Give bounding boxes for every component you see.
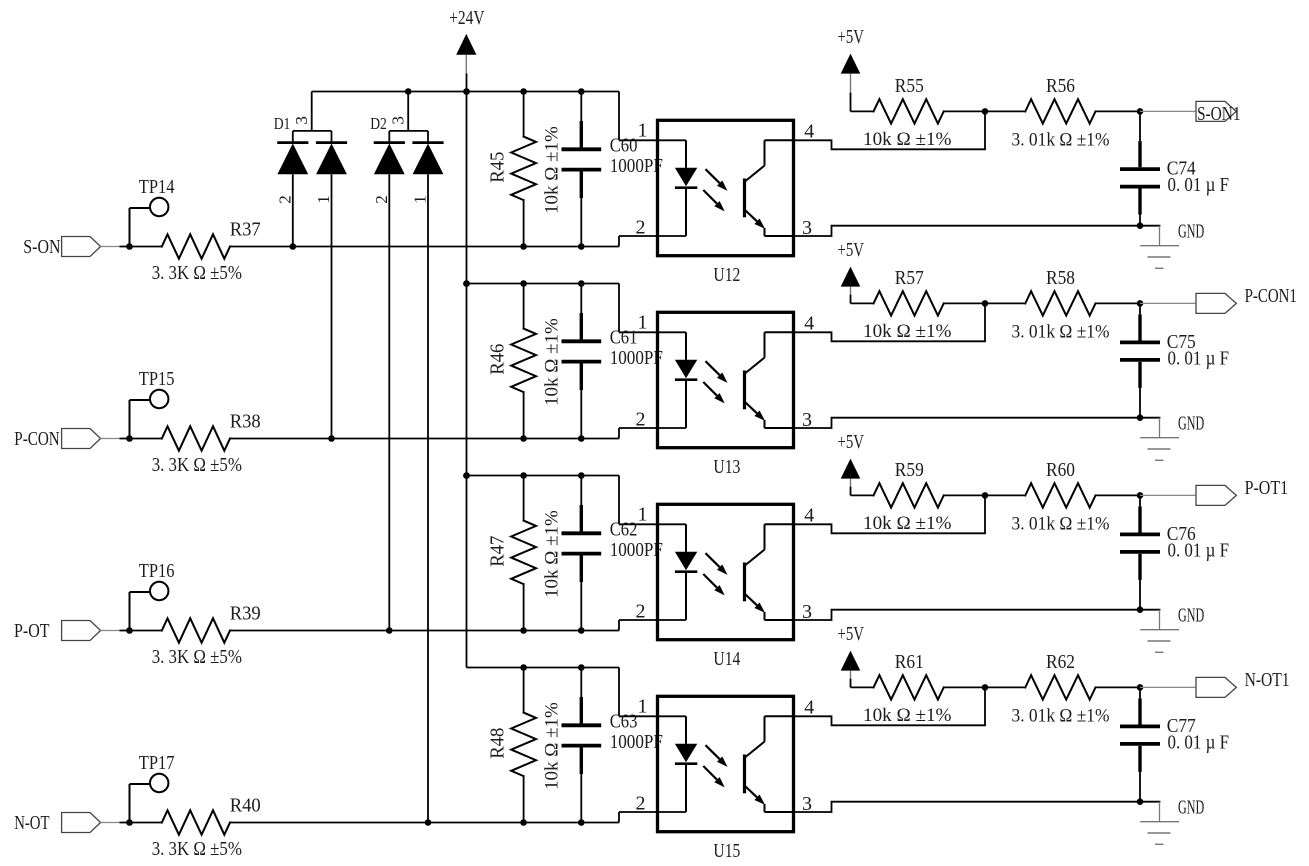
svg-text:3. 3K Ω ±5%: 3. 3K Ω ±5% bbox=[152, 646, 242, 668]
svg-text:1: 1 bbox=[638, 120, 648, 142]
node S-ON input port bbox=[23, 236, 119, 258]
svg-text:R55: R55 bbox=[895, 75, 924, 97]
optocoupler U12 bbox=[636, 120, 815, 287]
svg-text:3. 01k Ω ±1%: 3. 01k Ω ±1% bbox=[1012, 129, 1110, 150]
svg-text:R59: R59 bbox=[895, 459, 924, 481]
junction row/R47 bbox=[520, 627, 527, 634]
resistor R40 3.3K bbox=[120, 794, 261, 860]
svg-text:2: 2 bbox=[636, 601, 646, 623]
svg-text:1: 1 bbox=[638, 504, 648, 526]
svg-text:GND: GND bbox=[1178, 605, 1204, 627]
ground symbol channel 3 bbox=[1140, 605, 1204, 653]
junction C77/GND wire bbox=[1137, 798, 1144, 805]
U15 LED bbox=[685, 716, 687, 744]
optocoupler U13 bbox=[636, 312, 815, 479]
svg-text:2: 2 bbox=[372, 195, 391, 204]
svg-text:2: 2 bbox=[636, 217, 646, 239]
svg-text:P-OT: P-OT bbox=[14, 620, 50, 642]
junction +24V/rail1 bbox=[463, 88, 470, 95]
svg-text:N-OT: N-OT bbox=[14, 812, 49, 834]
svg-text:1000PF: 1000PF bbox=[610, 347, 663, 369]
svg-text:U12: U12 bbox=[713, 264, 740, 286]
svg-text:N-OT1: N-OT1 bbox=[1245, 669, 1290, 691]
test point TP15 bbox=[126, 368, 174, 442]
svg-text:0. 01 µ F: 0. 01 µ F bbox=[1168, 347, 1230, 369]
U12 phototransistor bbox=[743, 179, 746, 218]
svg-text:+5V: +5V bbox=[838, 26, 865, 48]
wire N-OT row net bbox=[230, 812, 686, 826]
junction rail/R46 bbox=[520, 280, 527, 287]
junction rail/C63 bbox=[578, 664, 585, 671]
svg-text:4: 4 bbox=[804, 697, 814, 719]
test point TP17 bbox=[126, 752, 174, 826]
junction rail/+24V line bbox=[463, 280, 470, 287]
junction R57/R58/pin4 bbox=[982, 300, 989, 307]
svg-text:R38: R38 bbox=[230, 410, 261, 432]
resistor R46 10k vertical bbox=[487, 284, 563, 439]
node N-OT input port bbox=[14, 812, 119, 834]
svg-text:4: 4 bbox=[804, 313, 814, 335]
wire D1 pin 2 to row 1 bbox=[290, 174, 297, 250]
junction output node bbox=[1137, 492, 1144, 499]
svg-text:0. 01 µ F: 0. 01 µ F bbox=[1168, 731, 1230, 753]
svg-text:R60: R60 bbox=[1046, 459, 1075, 481]
resistor R47 10k vertical bbox=[487, 476, 563, 631]
junction row/R45 bbox=[520, 243, 527, 250]
svg-text:R47: R47 bbox=[487, 536, 509, 567]
svg-text:1: 1 bbox=[410, 195, 429, 204]
svg-text:TP15: TP15 bbox=[139, 368, 175, 390]
U12 LED bbox=[685, 140, 687, 168]
wire +24V vertical net bbox=[466, 73, 468, 667]
svg-text:3. 01k Ω ±1%: 3. 01k Ω ±1% bbox=[1012, 513, 1110, 534]
junction row/C60 bbox=[578, 243, 585, 250]
svg-text:S-ON: S-ON bbox=[23, 236, 60, 258]
capacitor C61 1000PF bbox=[562, 284, 663, 439]
svg-text:4: 4 bbox=[804, 505, 814, 527]
wire P-OT row net bbox=[230, 620, 686, 634]
junction rail/+24V line bbox=[463, 88, 470, 95]
wire U14 pin 4 net bbox=[794, 495, 986, 533]
resistor R39 3.3K bbox=[120, 602, 261, 668]
svg-text:1: 1 bbox=[314, 195, 333, 204]
svg-text:2: 2 bbox=[636, 793, 646, 815]
wire U13 pin 3 / GND net bbox=[794, 418, 1160, 428]
junction C75/GND wire bbox=[1137, 414, 1144, 421]
junction rail/D2 pin3 bbox=[405, 88, 412, 95]
capacitor C75 0.01uF bbox=[1120, 303, 1229, 421]
junction output node bbox=[1137, 108, 1144, 115]
U14 phototransistor bbox=[743, 563, 746, 602]
ground symbol channel 2 bbox=[1140, 413, 1204, 461]
svg-text:3. 3K Ω ±5%: 3. 3K Ω ±5% bbox=[152, 262, 242, 284]
svg-text:GND: GND bbox=[1178, 413, 1204, 435]
resistor R56 3.01k bbox=[985, 75, 1143, 150]
resistor R61 10k bbox=[851, 651, 989, 726]
optocoupler U15 bbox=[636, 696, 815, 863]
svg-text:+5V: +5V bbox=[838, 623, 865, 645]
svg-text:R40: R40 bbox=[230, 794, 261, 816]
ground symbol channel 4 bbox=[1140, 797, 1204, 845]
resistor R45 10k vertical bbox=[487, 92, 563, 247]
svg-text:1000PF: 1000PF bbox=[610, 731, 663, 753]
svg-text:+24V: +24V bbox=[449, 7, 485, 29]
node P-CON1 output port bbox=[1140, 285, 1297, 314]
svg-text:TP14: TP14 bbox=[139, 176, 175, 198]
svg-text:2: 2 bbox=[636, 409, 646, 431]
svg-text:U15: U15 bbox=[713, 840, 740, 862]
svg-text:1: 1 bbox=[638, 312, 648, 334]
svg-text:3. 3K Ω ±5%: 3. 3K Ω ±5% bbox=[152, 454, 242, 476]
U12 light arrows bbox=[706, 169, 720, 183]
capacitor C74 0.01uF bbox=[1120, 111, 1229, 229]
svg-text:C60: C60 bbox=[610, 135, 638, 157]
svg-text:C62: C62 bbox=[610, 519, 638, 541]
svg-text:10k Ω ±1%: 10k Ω ±1% bbox=[542, 702, 563, 790]
svg-text:P-CON1: P-CON1 bbox=[1245, 285, 1297, 307]
svg-text:C63: C63 bbox=[610, 711, 638, 733]
junction TP14 / row bbox=[126, 243, 133, 250]
U13 light arrows bbox=[706, 361, 720, 375]
svg-text:GND: GND bbox=[1178, 221, 1204, 243]
junction R55/R56/pin4 bbox=[982, 108, 989, 115]
U14 light arrows bbox=[706, 553, 720, 567]
resistor R62 3.01k bbox=[985, 651, 1143, 727]
svg-text:1000PF: 1000PF bbox=[610, 539, 663, 561]
wire U15 pin 3 / GND net bbox=[794, 802, 1160, 812]
wire D2 pin 1 to row 4 bbox=[425, 174, 432, 826]
svg-text:S-ON1: S-ON1 bbox=[1197, 103, 1241, 125]
wire +24V rail channel 1 bbox=[312, 88, 686, 140]
junction TP16 / row bbox=[126, 627, 133, 634]
svg-text:U13: U13 bbox=[713, 456, 740, 478]
junction C74/GND wire bbox=[1137, 222, 1144, 229]
svg-text:1000PF: 1000PF bbox=[610, 155, 663, 177]
junction output node bbox=[1137, 300, 1144, 307]
power +5V channel 3 bbox=[838, 431, 865, 495]
junction R59/R60/pin4 bbox=[982, 492, 989, 499]
svg-text:10k Ω ±1%: 10k Ω ±1% bbox=[863, 705, 952, 726]
junction rail/R45 bbox=[520, 88, 527, 95]
svg-text:D1: D1 bbox=[274, 114, 291, 133]
svg-text:+5V: +5V bbox=[838, 239, 865, 261]
svg-text:1: 1 bbox=[638, 696, 648, 718]
junction row/R48 bbox=[520, 819, 527, 826]
svg-text:3. 01k Ω ±1%: 3. 01k Ω ±1% bbox=[1012, 321, 1110, 342]
wire +24V rail channel 4 bbox=[467, 664, 687, 716]
dual diode D1 bbox=[274, 92, 347, 204]
resistor R38 3.3K bbox=[120, 410, 261, 476]
svg-text:P-CON: P-CON bbox=[14, 428, 59, 450]
capacitor C77 0.01uF bbox=[1120, 687, 1229, 805]
svg-text:0. 01 µ F: 0. 01 µ F bbox=[1168, 174, 1230, 196]
svg-text:3: 3 bbox=[292, 116, 311, 125]
wire U12 pin 3 / GND net bbox=[794, 226, 1160, 236]
ground symbol channel 1 bbox=[1140, 221, 1204, 269]
svg-text:R56: R56 bbox=[1046, 75, 1075, 97]
svg-text:TP16: TP16 bbox=[139, 560, 175, 582]
junction rail/+24V line bbox=[463, 472, 470, 479]
optocoupler U14 bbox=[636, 504, 815, 671]
junction rail/C60 bbox=[578, 88, 585, 95]
junction row/C61 bbox=[578, 435, 585, 442]
node S-ON1 output port bbox=[1140, 101, 1241, 125]
U15 phototransistor bbox=[743, 755, 746, 794]
svg-text:R37: R37 bbox=[230, 218, 261, 240]
svg-text:TP17: TP17 bbox=[139, 752, 175, 774]
capacitor C62 1000PF bbox=[562, 476, 663, 631]
svg-text:C61: C61 bbox=[610, 327, 638, 349]
junction row/C63 bbox=[578, 819, 585, 826]
resistor R48 10k vertical bbox=[487, 668, 563, 823]
svg-text:R39: R39 bbox=[230, 602, 261, 624]
resistor R59 10k bbox=[851, 459, 989, 534]
node P-OT1 output port bbox=[1140, 477, 1288, 506]
power +5V channel 2 bbox=[838, 239, 865, 303]
svg-text:0. 01 µ F: 0. 01 µ F bbox=[1168, 539, 1230, 561]
junction row/R46 bbox=[520, 435, 527, 442]
power +5V channel 4 bbox=[838, 623, 865, 687]
junction C76/GND wire bbox=[1137, 606, 1144, 613]
junction +24V/rail2 bbox=[463, 280, 470, 287]
svg-text:10k Ω ±1%: 10k Ω ±1% bbox=[542, 126, 563, 214]
capacitor C63 1000PF bbox=[562, 668, 663, 823]
node P-OT input port bbox=[14, 620, 120, 642]
junction R61/R62/pin4 bbox=[982, 684, 989, 691]
svg-text:3: 3 bbox=[389, 116, 408, 125]
test point TP14 bbox=[126, 176, 174, 250]
U14 LED bbox=[685, 524, 687, 552]
capacitor C60 1000PF bbox=[562, 92, 663, 247]
wire U13 pin 4 net bbox=[794, 303, 986, 341]
svg-text:4: 4 bbox=[804, 121, 814, 143]
resistor R57 10k bbox=[851, 267, 989, 342]
dual diode D2 bbox=[370, 92, 443, 204]
test point TP16 bbox=[126, 560, 174, 634]
svg-text:GND: GND bbox=[1178, 797, 1204, 819]
junction +24V/rail3 bbox=[463, 472, 470, 479]
resistor R55 10k bbox=[851, 75, 989, 150]
wire +24V rail channel 2 bbox=[463, 280, 686, 332]
junction rail/R48 bbox=[520, 664, 527, 671]
node P-CON input port bbox=[14, 428, 119, 450]
capacitor C76 0.01uF bbox=[1120, 495, 1229, 613]
U13 LED bbox=[685, 332, 687, 360]
svg-text:R61: R61 bbox=[895, 651, 924, 673]
junction rail/C62 bbox=[578, 472, 585, 479]
svg-text:+5V: +5V bbox=[838, 431, 865, 453]
svg-text:R45: R45 bbox=[487, 152, 509, 183]
power +24V symbol bbox=[449, 7, 485, 73]
node N-OT1 output port bbox=[1140, 669, 1290, 698]
svg-text:10k Ω ±1%: 10k Ω ±1% bbox=[542, 318, 563, 406]
svg-text:3. 01k Ω ±1%: 3. 01k Ω ±1% bbox=[1012, 705, 1110, 726]
U15 light arrows bbox=[706, 745, 720, 759]
svg-text:R48: R48 bbox=[487, 728, 509, 759]
wire P-CON row net bbox=[230, 428, 686, 442]
svg-text:R46: R46 bbox=[487, 344, 509, 375]
svg-text:D2: D2 bbox=[370, 114, 387, 133]
wire S-ON row net bbox=[230, 236, 686, 250]
svg-text:10k Ω ±1%: 10k Ω ±1% bbox=[863, 129, 952, 150]
wire D1 pin 1 to row 2 bbox=[328, 174, 335, 442]
svg-text:P-OT1: P-OT1 bbox=[1245, 477, 1289, 499]
junction TP15 / row bbox=[126, 435, 133, 442]
svg-text:3. 3K Ω ±5%: 3. 3K Ω ±5% bbox=[152, 838, 242, 860]
junction output node bbox=[1137, 684, 1144, 691]
resistor R37 3.3K bbox=[120, 218, 261, 284]
junction rail/R47 bbox=[520, 472, 527, 479]
svg-text:R58: R58 bbox=[1046, 267, 1075, 289]
U13 phototransistor bbox=[743, 371, 746, 410]
svg-text:10k Ω ±1%: 10k Ω ±1% bbox=[863, 321, 952, 342]
junction row/C62 bbox=[578, 627, 585, 634]
resistor R58 3.01k bbox=[985, 267, 1143, 343]
svg-text:10k Ω ±1%: 10k Ω ±1% bbox=[863, 513, 952, 534]
power +5V channel 1 bbox=[838, 26, 865, 111]
wire D2 pin 2 to row 3 bbox=[386, 174, 393, 634]
svg-text:R57: R57 bbox=[895, 267, 924, 289]
wire U15 pin 4 net bbox=[794, 687, 986, 725]
svg-text:10k Ω ±1%: 10k Ω ±1% bbox=[542, 510, 563, 598]
svg-text:U14: U14 bbox=[713, 648, 740, 670]
svg-text:R62: R62 bbox=[1046, 651, 1075, 673]
wire U14 pin 3 / GND net bbox=[794, 610, 1160, 620]
resistor R60 3.01k bbox=[985, 459, 1143, 535]
junction TP17 / row bbox=[126, 819, 133, 826]
junction rail/C61 bbox=[578, 280, 585, 287]
svg-text:2: 2 bbox=[275, 195, 294, 204]
wire U12 pin 4 net bbox=[794, 111, 986, 149]
wire +24V rail channel 3 bbox=[463, 472, 686, 524]
